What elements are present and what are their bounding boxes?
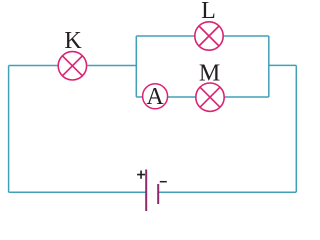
battery plus sign bbox=[137, 171, 145, 179]
wire: top branch right segment from lamp L bbox=[224, 35, 269, 37]
battery negative plate (short) bbox=[157, 184, 159, 204]
svg-text:L: L bbox=[201, 0, 216, 24]
wire: bottom left segment to battery bbox=[9, 191, 147, 193]
lamp L bbox=[195, 22, 223, 50]
wire: top-left horizontal to lamp K bbox=[9, 65, 58, 67]
wire: bottom right segment from battery bbox=[158, 191, 296, 193]
wire: box right middle stub to outer loop bbox=[269, 64, 297, 66]
wire: bottom branch left segment to ammeter A bbox=[136, 96, 142, 98]
wire: lamp M to parallel box right bbox=[225, 96, 269, 98]
wire: parallel box left vertical bbox=[135, 36, 137, 97]
svg-text:K: K bbox=[64, 28, 82, 54]
wire: parallel box right vertical bbox=[268, 36, 270, 97]
wire: outer loop right vertical bbox=[295, 65, 297, 192]
svg-text:M: M bbox=[199, 61, 220, 87]
wire: ammeter A to lamp M bbox=[168, 96, 196, 98]
battery positive plate (long) bbox=[145, 170, 147, 212]
wire: lamp K to parallel box left bbox=[87, 65, 136, 67]
lamp M bbox=[196, 83, 224, 111]
wire: outer loop left vertical bbox=[8, 66, 10, 193]
svg-text:A: A bbox=[146, 84, 164, 110]
ammeter A bbox=[143, 84, 168, 109]
wire: top branch left segment to lamp L bbox=[136, 35, 194, 37]
battery minus sign bbox=[160, 181, 167, 183]
lamp K bbox=[58, 52, 86, 80]
